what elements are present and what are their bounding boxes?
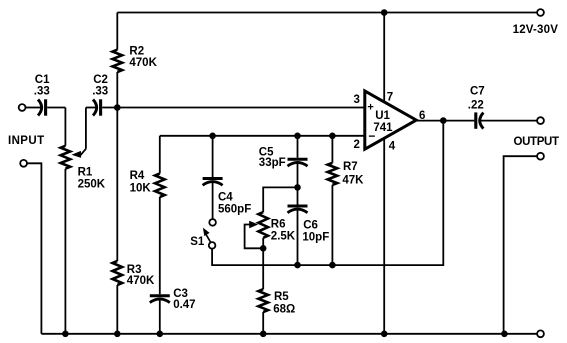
- svg-text:3: 3: [353, 94, 359, 106]
- svg-text:C6: C6: [303, 219, 318, 231]
- svg-text:4: 4: [389, 140, 396, 152]
- svg-text:S1: S1: [190, 236, 205, 248]
- svg-text:R1: R1: [78, 166, 93, 178]
- svg-text:12V-30V: 12V-30V: [513, 24, 559, 36]
- svg-text:7: 7: [387, 91, 393, 103]
- svg-text:2: 2: [353, 139, 359, 151]
- svg-text:33pF: 33pF: [259, 157, 286, 169]
- svg-text:250K: 250K: [78, 179, 106, 191]
- svg-text:R2: R2: [129, 45, 144, 57]
- svg-text:R6: R6: [271, 218, 286, 230]
- svg-text:0.47: 0.47: [173, 299, 195, 311]
- svg-text:47K: 47K: [342, 175, 364, 187]
- svg-text:.33: .33: [34, 85, 50, 97]
- svg-text:560pF: 560pF: [218, 204, 251, 216]
- svg-text:2.5K: 2.5K: [271, 230, 296, 242]
- svg-text:10K: 10K: [130, 183, 152, 195]
- svg-text:.33: .33: [92, 85, 108, 97]
- svg-text:U1: U1: [375, 110, 390, 122]
- svg-text:68Ω: 68Ω: [273, 303, 295, 315]
- svg-text:R5: R5: [274, 291, 289, 303]
- svg-text:C2: C2: [93, 74, 108, 86]
- svg-text:C7: C7: [470, 86, 485, 98]
- svg-text:R7: R7: [343, 161, 358, 173]
- svg-text:C1: C1: [35, 74, 50, 86]
- svg-text:741: 741: [373, 122, 393, 134]
- svg-text:R4: R4: [130, 170, 145, 182]
- svg-text:470K: 470K: [127, 275, 155, 287]
- svg-text:470K: 470K: [129, 57, 157, 69]
- svg-text:C4: C4: [218, 192, 233, 204]
- svg-text:+: +: [367, 102, 373, 114]
- svg-text:−: −: [368, 129, 375, 143]
- svg-text:6: 6: [419, 110, 425, 122]
- svg-text:.22: .22: [468, 99, 484, 111]
- svg-text:INPUT: INPUT: [8, 135, 45, 147]
- svg-text:OUTPUT: OUTPUT: [514, 136, 560, 148]
- svg-text:10pF: 10pF: [302, 231, 329, 243]
